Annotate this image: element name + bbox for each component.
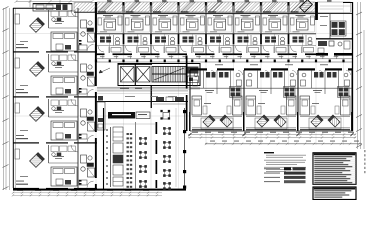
left wing room 2 corridor door arc [87, 90, 94, 97]
top room module 7 terrace awning [263, 2, 278, 12]
top room module 8 entry door arc [291, 46, 297, 52]
left wing room 3 corridor door arc [87, 136, 94, 143]
lower room unit 1 bathroom partitions [190, 70, 244, 94]
lower room unit 3 text marks [312, 90, 322, 104]
corridor text marks [100, 56, 338, 65]
top room module 7 wardrobe entry [276, 48, 286, 53]
top room module 1 center partition [109, 34, 111, 53]
top room module 8 corridor wall [289, 53, 317, 55]
lower room unit 3 beds [300, 96, 350, 115]
left wing room 3 closets [51, 100, 76, 106]
top room module 3 wardrobe right [173, 16, 177, 25]
top room module 8 wardrobe right [311, 16, 315, 25]
top room module 5 wardrobe entry [221, 48, 231, 53]
left wing room 3 door arc [71, 99, 78, 106]
top room module 1 terrace divider [95, 2, 97, 14]
sheet edge text marks right [364, 150, 366, 173]
kitchen equipment [113, 127, 123, 186]
top room module 1 terrace streak 2 [109, 3, 121, 12]
top room module 6 entry door arc [236, 46, 242, 52]
left wing room 1 text marks [20, 21, 64, 42]
top room module 4 center partition [191, 34, 193, 53]
legend notes heading [264, 152, 274, 153]
top room module 2 corridor wall [124, 53, 152, 55]
top room module 2 bathroom fixtures [128, 37, 148, 45]
schedule table main [313, 153, 356, 185]
left wing room 1 desk [15, 14, 20, 24]
top room module 6 terrace awning [236, 2, 251, 12]
dimension lines top edge [15, 0, 94, 7]
top room module 7 wardrobe right [283, 16, 287, 25]
top room module 3 center partition [164, 34, 166, 53]
top room module 6 center partition [246, 34, 248, 53]
top room module 2 entry door arc [126, 46, 132, 52]
top room module 4 desk left [181, 18, 185, 25]
top room module 7 bathroom fixtures [265, 37, 285, 45]
top room module 7 bed [269, 19, 281, 30]
left wing room 3 desk [15, 103, 20, 113]
lower room unit 2 balcony door wall [246, 116, 296, 118]
corner suite table and chairs [331, 21, 347, 36]
lower room unit 2 bathroom partitions [244, 70, 298, 94]
left wing room 2 closets [51, 55, 76, 61]
lower room unit 3 side shelves [311, 106, 339, 114]
service room left [97, 96, 105, 130]
dimension lines left edge [3, 7, 10, 191]
left wing room 1 closets [51, 11, 76, 17]
top room module 6 desk left [236, 18, 240, 25]
top room module 3 terrace divider [150, 2, 152, 14]
top room module 2 room outline [125, 18, 149, 33]
stair core service fixtures [188, 67, 199, 83]
top room module 1 entry door arc [98, 46, 104, 52]
dimension ticks bottom left [12, 192, 158, 197]
top room module 4 walls [178, 14, 206, 55]
top room module 5 bathroom fixtures [210, 37, 230, 45]
top room module 8 terrace hatch [290, 2, 316, 13]
left wing room 4 door arc [71, 145, 78, 152]
top band right outer wall [352, 2, 354, 131]
legend notes text lines [264, 155, 306, 172]
top room module 2 terrace rail [126, 11, 134, 12]
left wing top terrace [74, 3, 95, 13]
bar stools dots [106, 129, 108, 185]
left wing room 2 text marks [20, 65, 64, 86]
top room module 3 terrace rail [153, 11, 161, 12]
corridor columns [95, 60, 345, 63]
left wing corridor wall segments [95, 8, 97, 189]
top room module 6 wardrobe entry [249, 48, 259, 53]
lower room unit 1 chaise angled right [220, 115, 232, 127]
lobby floor lines [97, 88, 188, 91]
dining wall mid [135, 122, 137, 189]
stair landing lines [97, 87, 200, 93]
left wing room 3 bathroom fixtures [81, 109, 95, 131]
left wing room 2 bathroom fixtures [81, 64, 95, 86]
top room module 3 terrace hatch [152, 2, 178, 13]
left wing room 2 mid fixtures [52, 62, 61, 66]
left wing room 2 double bed [51, 76, 77, 95]
top room module 6 terrace divider [233, 2, 235, 14]
dimension lines right edge [356, 2, 364, 149]
lower room unit 3 bathroom partitions [298, 70, 352, 94]
top room module 8 terrace rail [291, 11, 299, 12]
top room module 4 bathroom fixtures [183, 37, 203, 45]
left wing room 4 text marks [20, 156, 64, 177]
lower room unit 2 text marks [258, 90, 268, 104]
lower room unit 2 balcony side stubs [243, 112, 298, 131]
top room module 4 entry door arc [181, 46, 187, 52]
top room module 8 bed [297, 19, 309, 30]
left wing outer wall top [13, 7, 60, 9]
elevator 1 [121, 67, 135, 83]
dining tables column 2 [163, 127, 171, 135]
top room module 2 terrace awning [126, 2, 141, 12]
left wing room 1 door arc [71, 10, 78, 17]
lower room unit 1 text marks [204, 90, 214, 104]
stair core outer wall [118, 64, 200, 86]
left wing room 3 lower fixtures [56, 133, 87, 139]
corridor door jambs [103, 56, 337, 59]
top room module 4 terrace divider [178, 2, 180, 14]
left wing room 3 radiator [16, 135, 28, 139]
left wing room 4 bathroom fixtures [81, 155, 95, 177]
lower room unit 1 kitchenette cluster [230, 87, 242, 98]
lower room unit 2 chaise angled right [274, 115, 286, 127]
lower room unit 2 bathroom fixtures [247, 72, 296, 86]
corner suite terrace divider [315, 2, 318, 20]
left wing room 4 lower fixtures [56, 179, 87, 185]
top room module 8 desk left [291, 18, 295, 25]
top room module 5 terrace hatch [207, 2, 233, 13]
reception wall [96, 101, 188, 103]
lower room unit 2 balcony [246, 118, 296, 130]
left wing room 1 mid fixtures [52, 18, 61, 22]
top room module 6 bathroom fixtures [238, 37, 258, 45]
top room module 4 terrace awning [181, 2, 196, 12]
left wing corridor door frames [79, 40, 82, 185]
lower room unit 1 chaise angled left [203, 115, 215, 127]
left wing room 1 lower fixtures [56, 44, 87, 50]
lower room unit 2 kitchenette cluster [284, 87, 296, 98]
left wing room 4 divider wall [13, 188, 97, 189]
left wing room 4 closets [51, 146, 76, 152]
top room module 8 terrace awning [291, 2, 306, 12]
schedule table footer [313, 187, 356, 200]
top room module 7 terrace streak 2 [274, 3, 286, 12]
top room module 8 terrace streak 2 [302, 3, 314, 12]
dining floor lines [104, 108, 176, 187]
top room module 3 corridor wall [151, 53, 179, 55]
top room module 1 terrace hatch [97, 2, 123, 13]
lower room unit 3 chaise angled left [311, 115, 323, 127]
top room module 2 terrace hatch [125, 2, 151, 13]
corner suite terrace lines [320, 6, 350, 9]
top room module 6 terrace hatch [235, 2, 261, 13]
dining tables column 1 [139, 137, 147, 145]
left wing room 2 partition walls [49, 52, 79, 97]
top band right top wall [343, 2, 353, 4]
left wing room 4 bed angled [30, 153, 45, 168]
lower room unit 1 balcony [192, 118, 242, 130]
lobby arrow [99, 68, 110, 73]
top room module 5 entry door arc [208, 46, 214, 52]
legend swatch row 3 [284, 176, 306, 179]
top room module 4 wardrobe right [201, 16, 205, 25]
left wing room 1 corridor door arc [87, 45, 94, 52]
left wing room 4 corridor door arc [87, 181, 94, 188]
left wing corridor inner edge [77, 8, 79, 188]
top room module 2 terrace divider [123, 2, 125, 14]
lower room unit 1 balcony door wall [192, 116, 242, 118]
corner suite corridor wall [316, 53, 352, 56]
left wing room 3 mid fixtures [52, 107, 61, 111]
lower room unit 3 kitchenette cluster [338, 87, 350, 98]
corner suite bathroom fixtures [318, 41, 350, 53]
top room module 7 terrace divider [260, 2, 262, 14]
top room module 5 center partition [219, 34, 221, 53]
top room module 5 desk left [208, 18, 212, 25]
top room module 3 bathroom fixtures [155, 37, 175, 45]
left wing room 1 bathroom fixtures [81, 20, 95, 42]
dimension lines bottom left [13, 193, 162, 196]
top room module 5 terrace divider [205, 2, 207, 14]
left wing room 1 double bed [51, 32, 77, 51]
top room module 5 corridor wall [206, 53, 234, 55]
lower room unit 1 side walls [190, 70, 244, 131]
top room module 5 text marks [210, 15, 223, 32]
top room module 8 wardrobe entry [304, 48, 314, 53]
top room module 7 terrace rail [263, 11, 271, 12]
dimension text dashes right mid [192, 132, 359, 142]
construction grid lines [13, 2, 352, 190]
top room module 7 center partition [274, 34, 276, 53]
left wing room 1 divider wall [13, 51, 97, 52]
top room module 7 corridor wall [261, 53, 289, 55]
left wing room 3 partition walls [49, 97, 79, 143]
left wing room 2 lower fixtures [56, 88, 87, 94]
top room module 1 room outline [98, 18, 122, 33]
top room module 3 terrace streak 2 [164, 3, 176, 12]
corner suite text marks [320, 16, 328, 26]
top room module 1 terrace rail [98, 11, 106, 12]
top room module 3 wardrobe entry [166, 48, 176, 53]
top room module 7 text marks [265, 15, 278, 32]
top room module 4 terrace hatch [180, 2, 206, 13]
landing dark dashes [120, 88, 142, 89]
top room module 2 desk left [126, 18, 130, 25]
reception top table cluster [160, 110, 170, 120]
top room module 3 walls [150, 14, 178, 55]
lower room unit 2 beds [246, 96, 296, 115]
top room module 4 wardrobe entry [194, 48, 204, 53]
dimension text dashes bottom left [17, 189, 149, 192]
lower room unit 2 side shelves [257, 106, 285, 114]
left wing room 2 divider wall [13, 96, 97, 97]
top room module 5 terrace awning [208, 2, 223, 12]
corner suite terrace [317, 2, 350, 13]
stair treads [152, 67, 186, 83]
top room module 2 text marks [128, 15, 141, 32]
top room module 3 room outline [153, 18, 177, 33]
dining bench dashes [127, 133, 133, 188]
lower room unit 3 chaise angled right [328, 115, 340, 127]
legend swatch labels [264, 168, 280, 182]
left wing room 2 radiator [16, 89, 28, 93]
top room module 2 walls [123, 14, 151, 55]
top room module 5 bed [214, 19, 226, 30]
corner suite walls [316, 14, 352, 39]
lobby service shaft wall [151, 86, 152, 109]
elevator shaft divider [134, 64, 136, 86]
left wing bottom wall [13, 189, 186, 191]
top room module 8 terrace divider [288, 2, 290, 14]
lower room unit 1 bathroom fixtures [193, 72, 242, 86]
left wing room 4 mid fixtures [52, 153, 61, 157]
top room module 1 wardrobe entry [111, 48, 121, 53]
left wing room 3 bed angled [30, 107, 45, 122]
lower rooms bottom wall [190, 130, 353, 132]
left wing room 1 radiator [16, 44, 28, 48]
left wing room 2 door arc [71, 54, 78, 61]
top room module 3 bed [159, 19, 171, 30]
left wing room 3 divider wall [13, 142, 97, 143]
top room module 7 walls [260, 14, 288, 55]
top room module 1 bathroom fixtures [100, 37, 120, 45]
lower room unit 1 balcony side stubs [189, 112, 244, 131]
top room module 7 desk left [263, 18, 267, 25]
left wing room 1 partition walls [49, 8, 79, 52]
top room module 6 room outline [235, 18, 259, 33]
top room module 1 corridor wall [96, 53, 124, 55]
lower room unit 2 side walls [244, 70, 298, 131]
dimension big ticks right mid [188, 133, 353, 136]
top room module 1 text marks [100, 15, 113, 32]
top room module 4 terrace streak 2 [192, 3, 204, 12]
top room module 8 text marks [293, 15, 306, 32]
left wing room 4 double bed [51, 167, 77, 186]
left wing room 2 desk [15, 58, 20, 68]
schedule table rows [313, 156, 356, 184]
top room module 7 terrace hatch [262, 2, 288, 13]
top room module 6 walls [233, 14, 261, 55]
lobby text dashes [125, 95, 177, 98]
top room module 3 desk left [153, 18, 157, 25]
stair core top wall band [118, 63, 152, 65]
top room module 2 terrace streak 2 [137, 3, 149, 12]
top room module 8 bathroom fixtures [293, 37, 313, 45]
lower room unit 2 chaise angled left [257, 115, 269, 127]
lower room unit 3 bathroom fixtures [301, 72, 350, 86]
top room module 3 text marks [155, 15, 168, 32]
lower room unit 3 balcony door wall [300, 116, 350, 118]
left wing room 3 text marks [20, 110, 64, 131]
top room module 5 terrace rail [208, 11, 216, 12]
top room module 1 desk left [98, 18, 102, 25]
left wing room 2 bed angled [30, 62, 45, 77]
buffet counter [108, 112, 150, 119]
top room module 1 walls [95, 14, 123, 55]
corner suite angled bed top [300, 0, 313, 12]
top room module 5 wardrobe right [228, 16, 232, 25]
bar counter line [110, 127, 112, 187]
left wing room 4 partition walls [49, 143, 79, 189]
top room module 4 text marks [183, 15, 196, 32]
top module tick marks [107, 0, 332, 1]
top room module 6 wardrobe right [256, 16, 260, 25]
top room module 4 bed [187, 19, 199, 30]
top room module 4 corridor wall [179, 53, 207, 55]
left wing room 4 desk [15, 149, 20, 159]
left wing ensuite block top [33, 4, 72, 12]
top room module 4 terrace rail [181, 11, 189, 12]
lower room unit 1 side shelves [203, 106, 231, 114]
top room module 2 wardrobe right [146, 16, 150, 25]
top room module 4 room outline [180, 18, 204, 33]
top room module 8 walls [288, 14, 316, 55]
legend swatch row 1 [284, 167, 306, 170]
lower room unit 3 balcony [300, 118, 350, 130]
top room module 3 terrace awning [153, 2, 168, 12]
elevator 2 [137, 67, 151, 83]
top room module 6 bed [242, 19, 254, 30]
top room module 2 center partition [136, 34, 138, 53]
dining right wall with columns [183, 108, 186, 189]
legend swatch row 4 [284, 180, 306, 183]
junction wall between wings [186, 56, 188, 132]
top band left end wall [95, 2, 97, 56]
top room module 7 room outline [263, 18, 287, 33]
left wing room 1 bed angled [30, 18, 45, 33]
lower room unit 3 side walls [298, 70, 352, 131]
lower room unit 3 balcony side stubs [297, 112, 352, 131]
corridor floor lines [96, 59, 352, 62]
top room module 1 bed [104, 19, 116, 30]
top room module 5 terrace streak 2 [219, 3, 231, 12]
left wing room 4 radiator [16, 181, 28, 185]
dimension lines right mid band [188, 133, 362, 145]
top room module 6 terrace streak 2 [247, 3, 259, 12]
legend swatch row 2 [284, 172, 306, 175]
top room module 6 text marks [238, 15, 251, 32]
top room module 3 entry door arc [153, 46, 159, 52]
left wing room 3 double bed [51, 121, 77, 140]
lower rooms corridor wall [190, 68, 353, 70]
lower room unit 1 beds [192, 96, 242, 115]
lower rooms door arcs [211, 71, 351, 76]
top room module 2 wardrobe entry [139, 48, 149, 53]
top room module 6 terrace rail [236, 11, 244, 12]
top room module 6 corridor wall [234, 53, 262, 55]
top room module 7 entry door arc [263, 46, 269, 52]
dining wall with door gaps [156, 122, 158, 188]
dining left wall [103, 108, 105, 189]
left wing outer wall left [13, 8, 15, 188]
top room module 5 room outline [208, 18, 232, 33]
lobby service cluster [153, 97, 186, 104]
top room module 1 terrace awning [98, 2, 113, 12]
top room module 1 wardrobe right [118, 16, 122, 25]
top room module 5 walls [205, 14, 233, 55]
top room module 2 bed [132, 19, 144, 30]
top room module 8 center partition [301, 34, 303, 53]
top room module 8 room outline [290, 18, 314, 33]
